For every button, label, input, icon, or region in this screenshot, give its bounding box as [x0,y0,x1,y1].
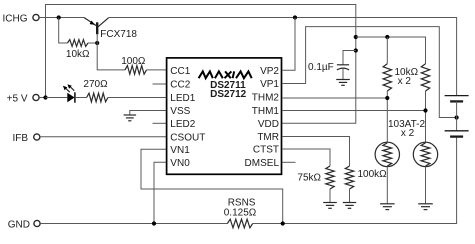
wire LED to R3 [75,97,87,99]
wire ICHG junction down to R1 [59,18,68,44]
wire VP2 to collector rail [282,18,295,71]
svg-text:x 2: x 2 [401,128,415,139]
thermistor RT2 103AT-2 [413,142,437,166]
node ICHG junction [57,15,61,19]
resistor R3 270ohm [83,79,108,102]
wire GND rail right of RSNS to battery bottom [253,137,457,224]
svg-text:x 2: x 2 [398,76,412,87]
node THM1 junction [423,108,427,112]
svg-text:270Ω: 270Ω [83,79,108,90]
wire collector rail to battery top [109,18,457,96]
svg-text:LED1: LED1 [170,93,195,104]
svg-text:FCX718: FCX718 [100,29,137,40]
svg-text:VP1: VP1 [260,79,279,90]
svg-text:100kΩ: 100kΩ [358,169,388,180]
node +5V junction [43,95,47,99]
resistor RSNS 0.125ohm [224,197,257,228]
wire IFB to CSOUT [40,136,167,138]
wire ICHG to emitter [39,17,84,19]
svg-text:CSOUT: CSOUT [170,132,205,143]
ground RT2 [418,204,433,210]
resistor R7 100k [345,166,387,189]
node base junction [95,41,99,45]
svg-text:CTST: CTST [253,145,279,156]
wire R1 to base node [88,42,97,44]
svg-text:THM1: THM1 [252,106,280,117]
wire THM1 to right divider [282,110,426,112]
svg-text:CC2: CC2 [170,80,190,91]
node THM2 junction [385,96,389,100]
ground RT1 [380,204,395,210]
node VP2 tap on collector rail [293,15,297,19]
wire R2 to pin CC1 [147,69,167,71]
terminal ICHG [3,13,40,24]
terminal +5V [7,93,39,104]
battery BT1 2-cell [445,96,469,137]
wire LED2 stub [153,122,167,124]
svg-text:0.1µF: 0.1µF [308,62,334,73]
wire right 10k bottom to thermistor [425,91,427,142]
wire left 10k bottom to thermistor [386,91,388,142]
node VN1 junction [281,221,285,225]
svg-text:0.125Ω: 0.125Ω [224,207,257,218]
resistor R4 10k (left of x2) [383,64,391,91]
node battery center tap [455,115,459,119]
wire VN0 to GND rail [154,162,167,223]
transistor Q1 FCX718 [84,18,137,41]
svg-text:LED2: LED2 [170,119,195,130]
wire RT1 to ground [386,167,388,204]
node VN0 junction [152,221,156,225]
wire THM2 to left divider [282,97,387,99]
resistor R2 100ohm [121,56,146,74]
wire DMSEL stub [282,161,296,163]
svg-text:+5 V: +5 V [7,93,28,104]
resistor R5 10k (right of x2) [394,64,429,91]
svg-text:CC1: CC1 [170,66,190,77]
wire base to R2 100ohm [97,34,125,70]
LED D1 [63,84,75,103]
svg-text:ICHG: ICHG [3,13,28,24]
thermistor RT1 103AT-2 [375,119,425,167]
node left 10k top [385,35,389,39]
wire CC2 stub [153,83,167,85]
ground C1 [336,80,350,86]
wire CTST to R6 [282,149,330,166]
svg-text:DMSEL: DMSEL [245,158,280,169]
svg-text:VP2: VP2 [260,66,279,77]
wire VSS to ground [130,111,167,116]
svg-text:75kΩ: 75kΩ [297,172,321,183]
op-amp U1 DS2711/DS2712 charger IC [167,58,282,174]
svg-text:IFB: IFB [12,133,28,144]
svg-text:VDD: VDD [258,119,279,130]
wire R6 to ground [329,189,331,203]
node VDD rail / cap junction [354,48,358,52]
wire +5V to LED [46,97,68,99]
svg-text:VN1: VN1 [170,145,190,156]
svg-text:VN0: VN0 [170,158,190,169]
wire RT2 to ground [425,167,427,204]
svg-text:100Ω: 100Ω [121,56,146,67]
wire R7 to ground [349,189,351,203]
terminal GND [8,219,40,230]
ground R6 [323,203,337,209]
wire VP1 to battery center tap [282,27,457,118]
wire 10k x2 feed [356,37,426,64]
ground R7 [343,203,356,209]
wire +5V rail: terminal up, across top, down to VDD [39,5,355,124]
svg-text:VSS: VSS [170,106,190,117]
node VDD rail / 10k feed junction [354,35,358,39]
capacitor C1 0.1uF [308,62,349,80]
wire VN1 to RSNS right (battery minus) [141,149,283,223]
wire R3 to pin LED1 [108,97,167,99]
ground VSS [124,115,137,121]
svg-text:THM2: THM2 [252,93,280,104]
svg-text:TMR: TMR [257,132,279,143]
resistor R1 10k [66,40,90,60]
logo MAXIM [199,71,252,78]
resistor R6 75k [297,166,334,189]
svg-text:10kΩ: 10kΩ [66,49,90,60]
svg-text:DS2712: DS2712 [210,89,247,100]
svg-text:GND: GND [8,219,30,230]
terminal IFB [12,133,39,144]
wire left 10k top stem [386,37,388,64]
wire cap branch [343,51,356,65]
wire GND rail left of RSNS [40,223,227,225]
wire TMR to R7 [282,137,350,167]
